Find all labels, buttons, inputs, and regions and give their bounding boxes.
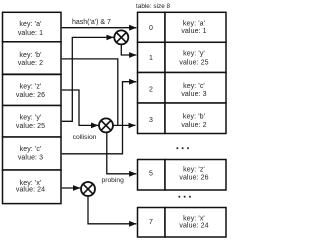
svg-text:7: 7: [149, 219, 153, 226]
table slot 7 index cell: [138, 208, 166, 238]
box key 'x' value 24: [3, 170, 62, 204]
wire hash circle 2 collision arrow toward slot 3: [113, 124, 135, 126]
svg-text:key: 'a': key: 'a': [183, 20, 205, 27]
table slot 3 value cell key 'b' value 2: [165, 103, 226, 134]
svg-text:value: 1: value: 1: [18, 30, 43, 37]
hash op circle 1: [114, 30, 128, 44]
svg-text:collision: collision: [73, 134, 97, 141]
box key 'z' value 26: [3, 75, 62, 106]
svg-text:key: 'x': key: 'x': [183, 215, 205, 222]
svg-text:value: 24: value: 24: [179, 223, 208, 230]
wire a to slot 0 with arrow: [62, 27, 137, 29]
table slot 1 index cell: [138, 42, 166, 72]
wire hash circle 1 output to slot 1 with arrow: [121, 45, 136, 55]
svg-text:0: 0: [149, 25, 153, 32]
svg-text:value: 25: value: 25: [179, 60, 208, 67]
svg-text:key: 'c': key: 'c': [20, 146, 42, 153]
svg-text:value: 3: value: 3: [181, 91, 206, 98]
svg-text:5: 5: [149, 171, 153, 178]
svg-text:key: 'b': key: 'b': [19, 52, 41, 59]
svg-text:probing: probing: [102, 177, 125, 184]
ellipsis between slot 3 and slot 5: [177, 147, 189, 149]
table slot 2 index cell: [138, 73, 166, 104]
wire y up to hash circle 1 with arrow: [62, 37, 114, 121]
svg-text:value: 3: value: 3: [18, 154, 43, 161]
svg-text:key: 'a': key: 'a': [19, 21, 41, 28]
table slot 7 value cell key 'x' value 24: [165, 208, 226, 238]
box key 'y' value 25: [3, 106, 62, 138]
table slot 0 value cell key 'a' value 1: [165, 12, 226, 42]
svg-text:value: 26: value: 26: [16, 92, 45, 99]
table slot 3 index cell: [138, 103, 166, 134]
svg-text:3: 3: [149, 117, 153, 124]
svg-text:value: 24: value: 24: [16, 187, 45, 194]
svg-text:key: 'z': key: 'z': [183, 167, 205, 174]
svg-text:key: 'z': key: 'z': [20, 83, 42, 90]
svg-text:value: 1: value: 1: [181, 28, 206, 35]
wire c up to slot 2 with arrow: [62, 82, 137, 154]
hash op circle 3: [81, 182, 95, 196]
svg-text:key: 'y': key: 'y': [183, 50, 205, 57]
table slot 5 value cell key 'z' value 26: [165, 160, 226, 191]
table slot 2 value cell key 'c' value 3: [165, 73, 226, 104]
svg-text:key: 'y': key: 'y': [20, 114, 42, 121]
box key 'c' value 3: [3, 137, 62, 170]
box key 'b' value 2: [3, 42, 62, 74]
svg-text:key: 'c': key: 'c': [183, 83, 205, 90]
svg-text:hash('a') & 7: hash('a') & 7: [72, 19, 111, 26]
wire x to hash circle 3 with arrow: [62, 187, 80, 189]
table slot 1 value cell key 'y' value 25: [165, 42, 226, 72]
svg-text:value: 26: value: 26: [179, 175, 208, 182]
table slot 5 index cell: [138, 160, 166, 191]
svg-text:key: 'b': key: 'b': [183, 114, 205, 121]
wire z to hash circle 2 with arrow: [62, 90, 98, 125]
svg-text:2: 2: [149, 87, 153, 94]
svg-text:table: size 8: table: size 8: [136, 3, 171, 10]
svg-text:value: 2: value: 2: [181, 122, 206, 129]
svg-text:value: 2: value: 2: [18, 60, 43, 67]
wire hash circle 3 output to slot 7 with arrow: [88, 197, 136, 224]
ellipsis between slot 5 and slot 7: [179, 196, 191, 198]
hash op circle 2: [99, 118, 113, 132]
svg-text:value: 25: value: 25: [16, 123, 45, 130]
svg-text:1: 1: [149, 55, 153, 62]
wire b down to slot 3 feed: [62, 59, 118, 126]
table slot 0 index cell: [138, 12, 166, 42]
box key 'a' value 1: [3, 12, 62, 42]
wire hash circle 2 probe down to slot 5 with arrow: [107, 133, 137, 174]
